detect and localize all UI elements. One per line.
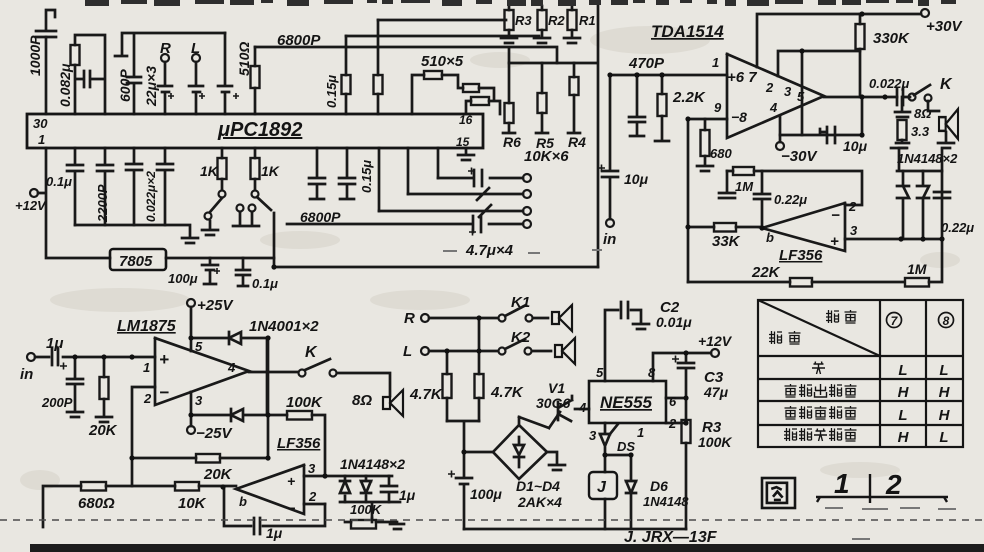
svg-text:0.082μ: 0.082μ <box>57 63 73 107</box>
svg-text:3: 3 <box>308 461 316 476</box>
svg-text:in: in <box>20 366 33 383</box>
svg-text:+12V: +12V <box>15 198 47 213</box>
svg-text:DS: DS <box>617 439 635 454</box>
svg-text:5: 5 <box>797 89 805 104</box>
svg-text:L: L <box>939 429 948 446</box>
svg-text:1: 1 <box>637 425 644 440</box>
svg-text:4.7K: 4.7K <box>409 386 443 403</box>
svg-text:20K: 20K <box>88 422 118 439</box>
svg-text:H: H <box>898 384 910 401</box>
svg-text:1M: 1M <box>907 261 927 277</box>
svg-text:6800P: 6800P <box>277 32 321 49</box>
svg-text:7805: 7805 <box>119 253 153 270</box>
svg-text:R2: R2 <box>548 13 565 28</box>
svg-text:4.7μ×4: 4.7μ×4 <box>465 242 514 259</box>
svg-text:TDA1514: TDA1514 <box>651 22 724 41</box>
svg-text:+12V: +12V <box>698 333 733 349</box>
svg-text:200P: 200P <box>41 395 73 410</box>
svg-text:1K: 1K <box>200 163 219 179</box>
svg-text:10K×6: 10K×6 <box>524 148 569 165</box>
svg-text:30G6: 30G6 <box>536 395 570 411</box>
svg-text:0.022μ: 0.022μ <box>869 76 910 91</box>
svg-text:15: 15 <box>456 135 470 149</box>
svg-text:R6: R6 <box>503 134 521 150</box>
svg-text:510×5: 510×5 <box>421 53 464 70</box>
svg-text:+: + <box>287 473 295 489</box>
svg-text:10μ: 10μ <box>843 138 868 154</box>
svg-text:H: H <box>939 384 951 401</box>
svg-text:1000P: 1000P <box>27 35 43 76</box>
svg-text:1μ: 1μ <box>46 335 63 352</box>
svg-text:1N4148×2: 1N4148×2 <box>897 151 958 166</box>
svg-text:6: 6 <box>669 394 677 409</box>
svg-text:0.15μ: 0.15μ <box>324 75 339 108</box>
svg-text:H: H <box>939 407 951 424</box>
svg-text:680: 680 <box>710 146 732 161</box>
svg-text:+: + <box>159 350 169 369</box>
svg-text:1μ: 1μ <box>399 487 416 503</box>
svg-text:100K: 100K <box>286 394 323 411</box>
svg-text:22K: 22K <box>751 264 781 281</box>
svg-text:μPC1892: μPC1892 <box>217 119 302 141</box>
svg-text:3: 3 <box>195 393 203 408</box>
svg-text:330K: 330K <box>873 30 910 47</box>
svg-text:3: 3 <box>850 223 858 238</box>
svg-text:470P: 470P <box>628 55 665 72</box>
svg-text:D6: D6 <box>650 478 668 494</box>
svg-text:L: L <box>939 362 948 379</box>
svg-text:LF356: LF356 <box>779 247 823 264</box>
svg-text:600P: 600P <box>117 69 133 102</box>
svg-text:+30V: +30V <box>926 18 963 35</box>
svg-text:0.1μ: 0.1μ <box>46 174 72 189</box>
svg-text:2: 2 <box>848 199 857 214</box>
svg-text:−: − <box>831 207 840 224</box>
svg-text:−30V: −30V <box>781 148 818 165</box>
svg-text:2AK×4: 2AK×4 <box>517 494 562 510</box>
svg-text:10K: 10K <box>178 495 207 512</box>
svg-text:R4: R4 <box>568 134 586 150</box>
svg-text:1N4148×2: 1N4148×2 <box>340 456 405 472</box>
svg-text:1N4001×2: 1N4001×2 <box>249 318 319 335</box>
svg-text:30: 30 <box>33 116 48 131</box>
svg-text:1N4148: 1N4148 <box>643 494 689 509</box>
svg-text:2: 2 <box>143 391 152 406</box>
svg-text:R: R <box>404 310 415 327</box>
svg-text:K1: K1 <box>511 294 530 311</box>
svg-text:4: 4 <box>227 360 236 375</box>
svg-text:2: 2 <box>308 489 317 504</box>
svg-text:0.15μ: 0.15μ <box>359 160 374 193</box>
svg-text:0.22μ: 0.22μ <box>941 220 974 235</box>
svg-text:1: 1 <box>38 132 45 147</box>
svg-text:8Ω: 8Ω <box>352 392 372 409</box>
svg-text:3.3: 3.3 <box>911 124 930 139</box>
svg-text:2.2K: 2.2K <box>672 89 706 106</box>
svg-text:+6 7: +6 7 <box>727 69 757 86</box>
svg-text:L: L <box>403 343 412 360</box>
svg-text:4: 4 <box>578 400 587 415</box>
svg-text:680Ω: 680Ω <box>78 495 115 512</box>
svg-text:8Ω: 8Ω <box>914 106 931 121</box>
svg-text:1: 1 <box>834 468 850 499</box>
svg-text:−25V: −25V <box>196 425 233 442</box>
svg-text:LF356: LF356 <box>277 435 321 452</box>
svg-text:b: b <box>766 230 774 245</box>
svg-text:100μ: 100μ <box>470 486 502 502</box>
svg-text:L: L <box>191 40 200 57</box>
svg-text:100K: 100K <box>698 434 732 450</box>
svg-text:0.022μ×2: 0.022μ×2 <box>144 171 158 222</box>
svg-text:0.22μ: 0.22μ <box>774 192 807 207</box>
svg-text:0.1μ: 0.1μ <box>252 276 278 291</box>
svg-text:100K: 100K <box>350 502 383 517</box>
svg-text:V1: V1 <box>548 380 565 396</box>
svg-text:−: − <box>159 383 169 402</box>
svg-text:R1: R1 <box>579 13 596 28</box>
svg-text:5: 5 <box>596 365 604 380</box>
svg-text:+25V: +25V <box>197 297 234 314</box>
svg-text:6800P: 6800P <box>300 209 341 225</box>
svg-text:1K: 1K <box>261 163 280 179</box>
svg-text:3: 3 <box>784 84 792 99</box>
svg-text:0.01μ: 0.01μ <box>656 314 692 330</box>
svg-text:L: L <box>898 407 907 424</box>
svg-text:2: 2 <box>668 416 677 431</box>
svg-text:K2: K2 <box>511 329 531 346</box>
svg-text:33K: 33K <box>712 233 741 250</box>
svg-text:3: 3 <box>589 428 597 443</box>
svg-text:8: 8 <box>943 314 950 328</box>
svg-text:K: K <box>305 344 318 361</box>
svg-text:1: 1 <box>712 55 719 70</box>
svg-text:R3: R3 <box>515 13 532 28</box>
svg-text:R: R <box>160 40 171 57</box>
svg-text:20K: 20K <box>203 466 233 483</box>
svg-text:+: + <box>830 233 839 250</box>
svg-text:2: 2 <box>885 469 902 500</box>
svg-text:10μ: 10μ <box>624 171 649 187</box>
svg-text:16: 16 <box>459 113 473 127</box>
svg-text:J: J <box>597 479 607 496</box>
svg-text:4.7K: 4.7K <box>490 384 524 401</box>
svg-text:NE555: NE555 <box>600 393 653 412</box>
svg-text:b: b <box>239 494 247 509</box>
svg-text:D1~D4: D1~D4 <box>516 478 560 494</box>
svg-text:J. JRX—13F: J. JRX—13F <box>624 529 718 546</box>
svg-text:2200P: 2200P <box>95 184 110 223</box>
svg-text:K: K <box>940 76 953 93</box>
svg-text:5: 5 <box>195 339 203 354</box>
svg-text:−: − <box>287 500 295 516</box>
svg-text:LM1875: LM1875 <box>117 318 177 335</box>
svg-text:9: 9 <box>714 100 722 115</box>
svg-text:L: L <box>898 362 907 379</box>
svg-text:−8: −8 <box>731 109 747 125</box>
svg-text:1: 1 <box>143 360 150 375</box>
svg-text:8: 8 <box>648 365 656 380</box>
svg-text:510Ω: 510Ω <box>236 42 252 76</box>
svg-text:H: H <box>898 429 910 446</box>
svg-text:1M: 1M <box>735 179 754 194</box>
svg-text:22μ×3: 22μ×3 <box>143 66 159 107</box>
svg-text:in: in <box>603 231 616 248</box>
svg-text:4: 4 <box>769 100 778 115</box>
svg-text:2: 2 <box>765 80 774 95</box>
svg-text:1μ: 1μ <box>266 525 283 541</box>
svg-text:100μ: 100μ <box>168 271 198 286</box>
svg-text:47μ: 47μ <box>703 384 729 400</box>
